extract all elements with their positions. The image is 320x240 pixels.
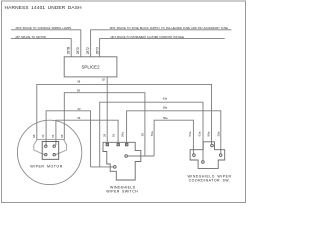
wire 63a bus E (100, 102, 203, 167)
svg-text:56a: 56a (150, 131, 154, 136)
svg-text:WIPER MOTOR: WIPER MOTOR (30, 165, 63, 169)
switch feed socket (125, 155, 128, 158)
svg-text:2872: 2872 (86, 47, 90, 54)
wire 56a bus D-right (154, 120, 193, 156)
coordinator socket left (193, 154, 196, 157)
svg-text:2873: 2873 (95, 47, 99, 54)
switch park socket (114, 166, 117, 169)
coordinator socket top (211, 144, 214, 147)
svg-text:63a: 63a (197, 131, 201, 136)
svg-text:2872 SPLICE TO FUSE BLOCK SUPP: 2872 SPLICE TO FUSE BLOCK SUPPLY TO 15A … (110, 26, 229, 30)
svg-text:28: 28 (103, 133, 107, 137)
svg-text:COORDINATOR SW.: COORDINATOR SW. (189, 178, 231, 182)
svg-text:58: 58 (141, 133, 145, 137)
wire 98 bus A (37, 84, 212, 144)
svg-text:2873 SPLICE TO INSTRUMENT CLUS: 2873 SPLICE TO INSTRUMENT CLUSTER CONSTA… (111, 36, 185, 39)
wire switch park pin (91, 166, 114, 168)
wire left bus line 2 (11, 39, 71, 57)
switch terminal pin 3 (126, 143, 128, 145)
svg-text:56a: 56a (188, 131, 192, 136)
svg-text:98a: 98a (207, 131, 211, 136)
wiper motor connector shell (34, 140, 67, 150)
wire 28 splice to switch pin1 (106, 77, 108, 143)
svg-text:287B: 287B (66, 47, 70, 54)
wiper motor circle (17, 120, 81, 184)
svg-text:98: 98 (32, 134, 36, 138)
wire 58 bus B (64, 93, 145, 156)
wire 28a bus C-right (127, 111, 221, 154)
svg-text:WIPER SWITCH: WIPER SWITCH (106, 189, 138, 193)
wiper motor connector body (42, 142, 59, 160)
wire left bus line 1 (11, 30, 81, 57)
switch terminal pin 2 (117, 143, 119, 145)
svg-text:287 SPLICE TO MOTOR: 287 SPLICE TO MOTOR (16, 35, 46, 39)
svg-text:63a: 63a (163, 97, 168, 101)
wire 56 bus D-left (56, 120, 118, 145)
wiper motor pin 4 (53, 154, 55, 156)
svg-text:2870: 2870 (76, 47, 80, 54)
wire right bus line 2 (100, 39, 225, 57)
svg-text:28a: 28a (163, 106, 168, 110)
coordinator socket bottom (202, 161, 205, 164)
coordinator switch outline (190, 142, 225, 169)
wire 63 bus C-left (46, 111, 90, 167)
svg-text:28a: 28a (120, 132, 124, 137)
border frame (2, 1, 246, 203)
svg-text:63: 63 (41, 134, 45, 138)
svg-text:56: 56 (112, 133, 116, 137)
svg-text:56a: 56a (163, 116, 168, 120)
svg-text:2870 SPLICE TO CONSOLE WIRING: 2870 SPLICE TO CONSOLE WIRING LAMPS (16, 26, 72, 30)
svg-text:28a: 28a (216, 131, 220, 136)
wire switch feed pin (127, 155, 154, 157)
wiper motor connector shell left slant (34, 150, 45, 155)
switch pin contact dots (107, 144, 108, 145)
wiper motor pin 1 (45, 145, 47, 147)
svg-text:56: 56 (51, 134, 55, 138)
wire right bus line 1 (91, 30, 232, 57)
switch terminal pin 1 (106, 143, 108, 145)
svg-text:58: 58 (60, 134, 64, 138)
windshield wiper switch outline (103, 142, 141, 180)
coordinator socket right (219, 154, 222, 157)
wiper motor pin 3 (45, 154, 47, 156)
svg-text:SPLICE2: SPLICE2 (81, 64, 100, 69)
wiper motor connector shell right slant (56, 150, 67, 155)
wiper motor pin 2 (53, 145, 55, 147)
svg-text:HARNESS 14401 UNDER DASH: HARNESS 14401 UNDER DASH (5, 5, 83, 11)
splice box SPLICE2 (64, 57, 117, 77)
